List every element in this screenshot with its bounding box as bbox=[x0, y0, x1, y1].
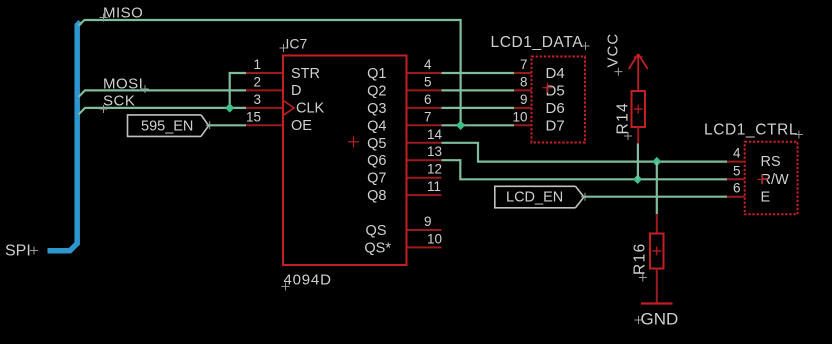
svg-text:4094D: 4094D bbox=[284, 272, 332, 289]
net flag 595_EN bbox=[128, 115, 209, 136]
svg-text:Q6: Q6 bbox=[367, 153, 386, 169]
svg-text:8: 8 bbox=[520, 74, 528, 89]
svg-text:15: 15 bbox=[246, 109, 261, 124]
svg-text:GND: GND bbox=[641, 310, 679, 329]
svg-text:3: 3 bbox=[253, 92, 261, 107]
wire MOSI bbox=[79, 90, 247, 97]
svg-text:7: 7 bbox=[520, 57, 528, 72]
connector LCD1_CTRL box bbox=[745, 142, 798, 215]
svg-text:4: 4 bbox=[424, 57, 432, 72]
svg-text:LCD1_DATA: LCD1_DATA bbox=[491, 34, 584, 51]
svg-text:Q4: Q4 bbox=[367, 118, 386, 134]
origin cross of IC7 symbol bbox=[348, 136, 359, 147]
svg-text:LCD1_CTRL: LCD1_CTRL bbox=[704, 121, 798, 138]
IC U1 body box (IC7 4094D) bbox=[283, 56, 407, 266]
svg-text:D7: D7 bbox=[546, 118, 565, 135]
resistor R14 body bbox=[632, 91, 646, 127]
junction R14 on R/W wire bbox=[633, 175, 642, 184]
svg-text:IC7: IC7 bbox=[286, 36, 308, 52]
wire Q3 to D6 bbox=[442, 107, 515, 109]
svg-text:E: E bbox=[761, 190, 771, 206]
origin cross of VCC pin bbox=[634, 56, 643, 58]
wire LCD_EN to E bbox=[584, 196, 727, 198]
svg-text:Q3: Q3 bbox=[367, 101, 386, 117]
svg-text:RS: RS bbox=[761, 154, 781, 170]
origin cross of MOSI label bbox=[141, 85, 149, 93]
svg-text:Q8: Q8 bbox=[367, 188, 386, 204]
connector LCD1_CTRL pin stubs 4,5,6 bbox=[727, 162, 745, 197]
svg-text:MISO: MISO bbox=[103, 5, 143, 22]
svg-text:7: 7 bbox=[424, 109, 432, 124]
svg-text:4: 4 bbox=[733, 146, 741, 161]
svg-text:11: 11 bbox=[427, 179, 441, 194]
wire Q4 to D7 bbox=[442, 124, 515, 126]
svg-text:QS: QS bbox=[366, 223, 387, 239]
svg-text:SCK: SCK bbox=[103, 93, 135, 110]
svg-text:R14: R14 bbox=[615, 102, 632, 135]
svg-text:OE: OE bbox=[291, 118, 312, 134]
svg-text:12: 12 bbox=[427, 162, 442, 177]
IC7 left pins 1,2,3,15 (red stubs) bbox=[246, 73, 283, 125]
svg-text:14: 14 bbox=[427, 127, 443, 142]
resistor R16 body bbox=[650, 234, 664, 269]
resistor R14 bottom pin bbox=[637, 127, 639, 144]
origin cross of LCD1_DATA part bbox=[543, 83, 553, 93]
ground symbol GND bar bbox=[641, 302, 673, 304]
connector LCD1_DATA box bbox=[532, 57, 586, 143]
origin cross of MISO label bbox=[100, 14, 108, 22]
origin cross of LCD1_DATA label bbox=[582, 42, 590, 50]
origin cross of LCD_EN flag bbox=[581, 193, 589, 201]
origin cross of SCK label bbox=[100, 105, 108, 113]
junction on SCK at CLK branch bbox=[225, 103, 234, 112]
origin cross of GND label bbox=[635, 316, 643, 324]
wire R14 to R/W bbox=[637, 144, 639, 180]
wire RS junction down to R16 bbox=[656, 162, 658, 214]
svg-text:6: 6 bbox=[733, 181, 741, 196]
bus SPI bbox=[48, 22, 81, 251]
svg-text:5: 5 bbox=[424, 74, 432, 89]
svg-text:STR: STR bbox=[291, 66, 320, 82]
svg-text:Q7: Q7 bbox=[367, 171, 386, 187]
svg-text:9: 9 bbox=[424, 214, 432, 229]
IC7 right pins 4,5,6,7,14,13,12,11,9,10 (red stubs) bbox=[407, 73, 442, 247]
wire Q1 to D4 bbox=[442, 72, 515, 74]
svg-text:QS*: QS* bbox=[364, 240, 391, 256]
connector LCD1_DATA pin stubs 7,8,9,10 bbox=[514, 73, 532, 125]
origin cross of VCC label bbox=[614, 68, 622, 76]
svg-text:D5: D5 bbox=[546, 83, 565, 100]
origin cross of SPI label bbox=[30, 247, 38, 255]
svg-text:CLK: CLK bbox=[296, 101, 325, 117]
origin cross of LCD1_CTRL part bbox=[758, 174, 768, 184]
svg-text:R16: R16 bbox=[632, 242, 649, 275]
svg-text:Q2: Q2 bbox=[367, 83, 386, 99]
svg-text:SPI: SPI bbox=[5, 243, 31, 260]
svg-text:D4: D4 bbox=[546, 65, 565, 82]
origin cross of R14 label bbox=[624, 132, 632, 140]
svg-text:R/W: R/W bbox=[761, 172, 790, 188]
svg-text:10: 10 bbox=[512, 109, 527, 124]
wire Q2 to D5 bbox=[442, 89, 515, 91]
wire SCK branch to STR (pin 1) bbox=[230, 73, 246, 108]
wire 595_EN to OE pin 15 bbox=[209, 124, 246, 126]
junction MISO on Q4 wire bbox=[456, 121, 465, 130]
origin cross of R14 bbox=[634, 105, 643, 114]
junction R16 on RS wire bbox=[652, 157, 661, 166]
svg-text:LCD_EN: LCD_EN bbox=[506, 190, 563, 206]
svg-text:D: D bbox=[291, 83, 301, 99]
svg-text:1: 1 bbox=[253, 57, 261, 72]
wire Q6 to R/W bbox=[442, 160, 728, 179]
svg-text:Q5: Q5 bbox=[367, 136, 386, 152]
svg-text:9: 9 bbox=[520, 92, 528, 107]
origin cross of IC7 label bbox=[280, 44, 288, 52]
svg-text:MOSI: MOSI bbox=[103, 76, 143, 93]
net flag LCD_EN bbox=[495, 186, 584, 208]
svg-text:2: 2 bbox=[253, 74, 261, 89]
svg-text:Q1: Q1 bbox=[367, 66, 386, 82]
svg-text:VCC: VCC bbox=[605, 33, 622, 68]
origin cross of R16 bbox=[652, 247, 661, 256]
svg-text:10: 10 bbox=[427, 231, 442, 246]
origin cross of 595_EN flag bbox=[206, 121, 214, 129]
svg-text:13: 13 bbox=[427, 144, 442, 159]
svg-text:595_EN: 595_EN bbox=[141, 118, 193, 134]
resistor R16 bottom pin bbox=[656, 269, 658, 304]
origin cross of 4094D label bbox=[282, 283, 290, 291]
power symbol VCC arrow bbox=[629, 54, 648, 91]
svg-text:5: 5 bbox=[733, 163, 741, 178]
origin cross of LCD1_CTRL label bbox=[795, 131, 803, 139]
wire MISO bbox=[79, 20, 461, 125]
clock wedge on CLK pin bbox=[284, 101, 294, 115]
origin cross of R16 label bbox=[639, 274, 647, 282]
wire SCK bbox=[79, 108, 247, 115]
svg-text:6: 6 bbox=[424, 92, 432, 107]
wire Q5 to RS bbox=[442, 143, 728, 162]
resistor R16 top pin bbox=[656, 214, 658, 234]
svg-text:D6: D6 bbox=[546, 100, 565, 117]
